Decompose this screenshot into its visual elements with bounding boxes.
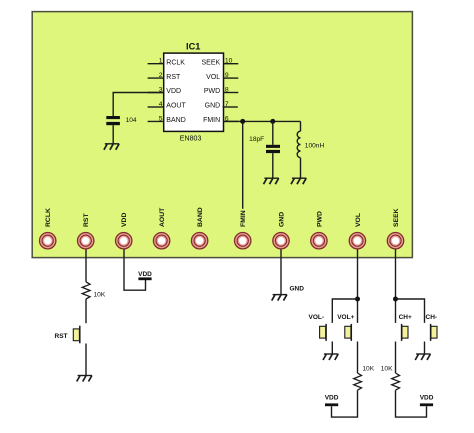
node VOL junction	[355, 297, 360, 302]
wire VOL+ to resistor	[357, 342, 359, 374]
capacitor 104	[106, 116, 137, 125]
svg-text:18pF: 18pF	[249, 136, 264, 143]
pad AOUT	[153, 207, 169, 249]
svg-text:1: 1	[159, 58, 163, 65]
svg-text:VDD: VDD	[121, 213, 128, 227]
wire resistor to VDD (VOL+)	[332, 390, 358, 417]
svg-text:3: 3	[159, 87, 163, 94]
pin 1 RCLK	[148, 58, 186, 67]
ground under 104	[104, 144, 119, 150]
svg-text:VOL+: VOL+	[337, 314, 354, 321]
svg-text:BAND: BAND	[166, 117, 185, 124]
svg-text:VDD: VDD	[138, 271, 152, 278]
svg-text:SEEK: SEEK	[202, 59, 221, 66]
pin 2 RST	[148, 72, 181, 81]
pad SEEK	[387, 208, 403, 249]
wire FMIN net	[224, 120, 301, 122]
pin 6 FMIN	[203, 115, 238, 124]
ground under CH-	[415, 354, 430, 360]
svg-text:GND: GND	[290, 285, 305, 292]
pad VDD	[116, 213, 132, 249]
svg-text:FMIN: FMIN	[240, 210, 247, 227]
wire capacitor 104 to ground	[112, 125, 114, 144]
op-amp U1 : IC1 EN803 body	[164, 53, 224, 131]
svg-text:VDD: VDD	[325, 394, 339, 401]
svg-text:GND: GND	[205, 103, 221, 110]
wire inductor to ground	[300, 158, 302, 178]
svg-text:RST: RST	[55, 333, 68, 340]
ground under 18pF	[264, 178, 279, 184]
svg-text:CH-: CH-	[426, 314, 438, 321]
wire resistor to switch	[85, 299, 87, 323]
pad PWD	[311, 211, 327, 249]
svg-text:7: 7	[225, 101, 229, 108]
svg-text:RCLK: RCLK	[45, 208, 52, 227]
inductor 100nH	[297, 131, 324, 157]
ground GND pad	[272, 295, 287, 301]
wire to inductor	[300, 121, 302, 131]
wire VOL- to ground	[331, 342, 333, 355]
pushbutton CH+	[399, 314, 412, 341]
node FMIN junction	[240, 119, 245, 124]
wire resistor to VDD (CH+)	[396, 390, 427, 417]
wire SEEK pad down	[395, 248, 397, 323]
pushbutton CH-	[426, 314, 438, 341]
board	[32, 12, 412, 258]
svg-text:BAND: BAND	[197, 207, 204, 227]
wire capacitor 18pF to ground	[272, 153, 274, 178]
pin 8 PWD	[204, 87, 238, 96]
pad FMIN	[235, 210, 251, 249]
wire pin3 VDD to capacitor 104	[113, 93, 163, 117]
pad GND	[273, 212, 289, 249]
svg-text:10K: 10K	[381, 366, 393, 373]
svg-text:10: 10	[225, 58, 233, 65]
svg-text:VDD: VDD	[420, 394, 434, 401]
wire GND pad down	[280, 248, 282, 295]
pushbutton VOL+	[337, 314, 354, 341]
node SEEK junction	[393, 297, 398, 302]
svg-text:GND: GND	[278, 212, 285, 227]
wire CH+ to resistor	[395, 342, 397, 374]
pin 9 VOL	[206, 72, 238, 81]
svg-text:FMIN: FMIN	[203, 117, 220, 124]
pin 7 GND	[205, 101, 238, 110]
pushbutton RST	[55, 326, 80, 344]
wire switch to ground	[85, 344, 87, 376]
pad VOL	[349, 213, 365, 249]
svg-text:CH+: CH+	[399, 314, 412, 321]
ground under inductor	[291, 178, 306, 184]
svg-text:4: 4	[159, 101, 163, 108]
svg-text:VOL-: VOL-	[309, 314, 325, 321]
pin 4 AOUT	[148, 101, 187, 110]
power VDD (CH+)	[420, 394, 434, 405]
pin 3 VDD	[148, 87, 181, 96]
wire FMIN junction to FMIN pad	[242, 121, 244, 208]
svg-text:AOUT: AOUT	[159, 207, 166, 227]
pad BAND	[191, 207, 207, 249]
ground under RST switch	[77, 376, 92, 382]
svg-text:VDD: VDD	[166, 88, 181, 95]
wire VOL pad down	[357, 248, 359, 323]
svg-text:5: 5	[159, 115, 163, 122]
power VDD (top)	[138, 271, 152, 279]
svg-text:104: 104	[126, 117, 137, 124]
svg-text:VOL: VOL	[355, 213, 362, 227]
ground under VOL-	[323, 354, 338, 360]
svg-text:2: 2	[159, 72, 163, 79]
svg-text:SEEK: SEEK	[393, 208, 400, 227]
svg-text:IC1: IC1	[186, 42, 200, 52]
power VDD (VOL+)	[325, 394, 339, 405]
capacitor 18pF	[249, 136, 280, 153]
svg-text:AOUT: AOUT	[166, 103, 186, 110]
svg-text:8: 8	[225, 87, 229, 94]
wire CH- to ground	[424, 342, 426, 355]
wire RST pad down	[85, 248, 87, 282]
wire junction to capacitor 18pF	[272, 121, 274, 144]
svg-text:RST: RST	[83, 213, 90, 227]
resistor 10K (RST pull)	[82, 282, 106, 299]
svg-text:10K: 10K	[362, 366, 374, 373]
resistor 10K (VOL+)	[354, 366, 375, 391]
node 18pF junction	[270, 119, 275, 124]
svg-text:PWD: PWD	[204, 88, 220, 95]
svg-text:100nH: 100nH	[305, 142, 325, 149]
svg-text:RCLK: RCLK	[166, 59, 185, 66]
pushbutton VOL-	[309, 314, 327, 341]
svg-text:RST: RST	[166, 74, 181, 81]
svg-text:10K: 10K	[94, 291, 106, 298]
wire VOL branch	[332, 299, 357, 323]
svg-text:9: 9	[225, 72, 229, 79]
svg-text:VOL: VOL	[206, 74, 220, 81]
pin 10 SEEK	[202, 58, 239, 67]
pad RCLK	[40, 208, 56, 249]
svg-text:PWD: PWD	[316, 211, 323, 227]
pad RST	[78, 213, 94, 249]
pin 5 BAND	[148, 115, 186, 124]
wire VDD pad to VDD symbol	[124, 248, 146, 290]
svg-text:EN803: EN803	[180, 135, 202, 143]
wire CH- branch	[396, 299, 425, 323]
resistor 10K (CH+)	[381, 366, 400, 391]
